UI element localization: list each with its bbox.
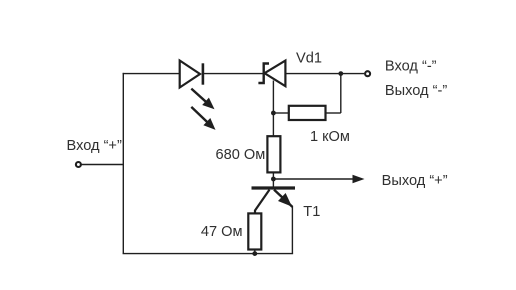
wire junction to terminal [341,73,365,75]
resistor R 680 Ом [267,136,280,172]
zener diode Vd1 cathode bar with ticks [258,64,269,84]
svg-text:T1: T1 [303,204,320,220]
wire emitter vertical [291,206,293,254]
wire top-left horizontal segment [123,73,180,75]
svg-text:1 кОм: 1 кОм [310,129,350,145]
wire node to resistor 1k left [273,112,288,114]
resistor R 1 кОм [289,106,326,120]
LED diode cathode bar [202,63,205,84]
svg-text:Вход “-”: Вход “-” [385,58,437,74]
svg-text:Вход “+”: Вход “+” [67,138,122,154]
svg-text:Выход “-”: Выход “-” [385,83,447,99]
svg-text:Выход “+”: Выход “+” [382,173,448,189]
wire 47 bottom [254,250,256,254]
node junction output plus [271,177,276,182]
label T1 [303,204,320,220]
wire bottom horizontal [123,253,294,255]
wire output plus with arrow [273,175,364,184]
LED light arrow 2 [191,107,215,130]
node junction top right [338,71,343,76]
label Вход "+" [67,138,122,154]
wire zener anode down to node [272,81,274,137]
transistor T1 base bar [252,186,296,189]
zener diode Vd1 triangle [265,61,286,87]
svg-text:Vd1: Vd1 [296,51,322,67]
label Выход "+" [382,173,448,189]
label 680 Ом [216,147,266,163]
svg-text:47 Ом: 47 Ом [201,224,243,240]
LED diode triangle [180,61,200,88]
transistor T1 collector lead [255,190,270,214]
LED light arrow 1 [191,89,214,110]
node junction zener bottom [271,111,276,116]
label 1 кОм [310,129,350,145]
wire resistor 1k right [326,112,341,114]
label Vd1 [296,51,322,67]
transistor T1 emitter lead with arrow [274,190,292,207]
terminal minus common [365,71,370,76]
wire left vertical bus [122,73,124,254]
svg-text:680 Ом: 680 Ом [216,147,266,163]
wire LED to zener [203,73,264,75]
node junction bottom [252,251,257,256]
resistor R 47 Ом [248,213,261,249]
terminal input plus [76,162,81,167]
wire zener to right junction [285,73,340,75]
label Выход "-" [385,83,447,99]
label Вход "-" [385,58,437,74]
wire 680 bottom to base bar [272,172,274,186]
label 47 Ом [201,224,243,240]
wire 1k up to top junction [340,74,342,113]
wire input plus horizontal [82,164,124,166]
